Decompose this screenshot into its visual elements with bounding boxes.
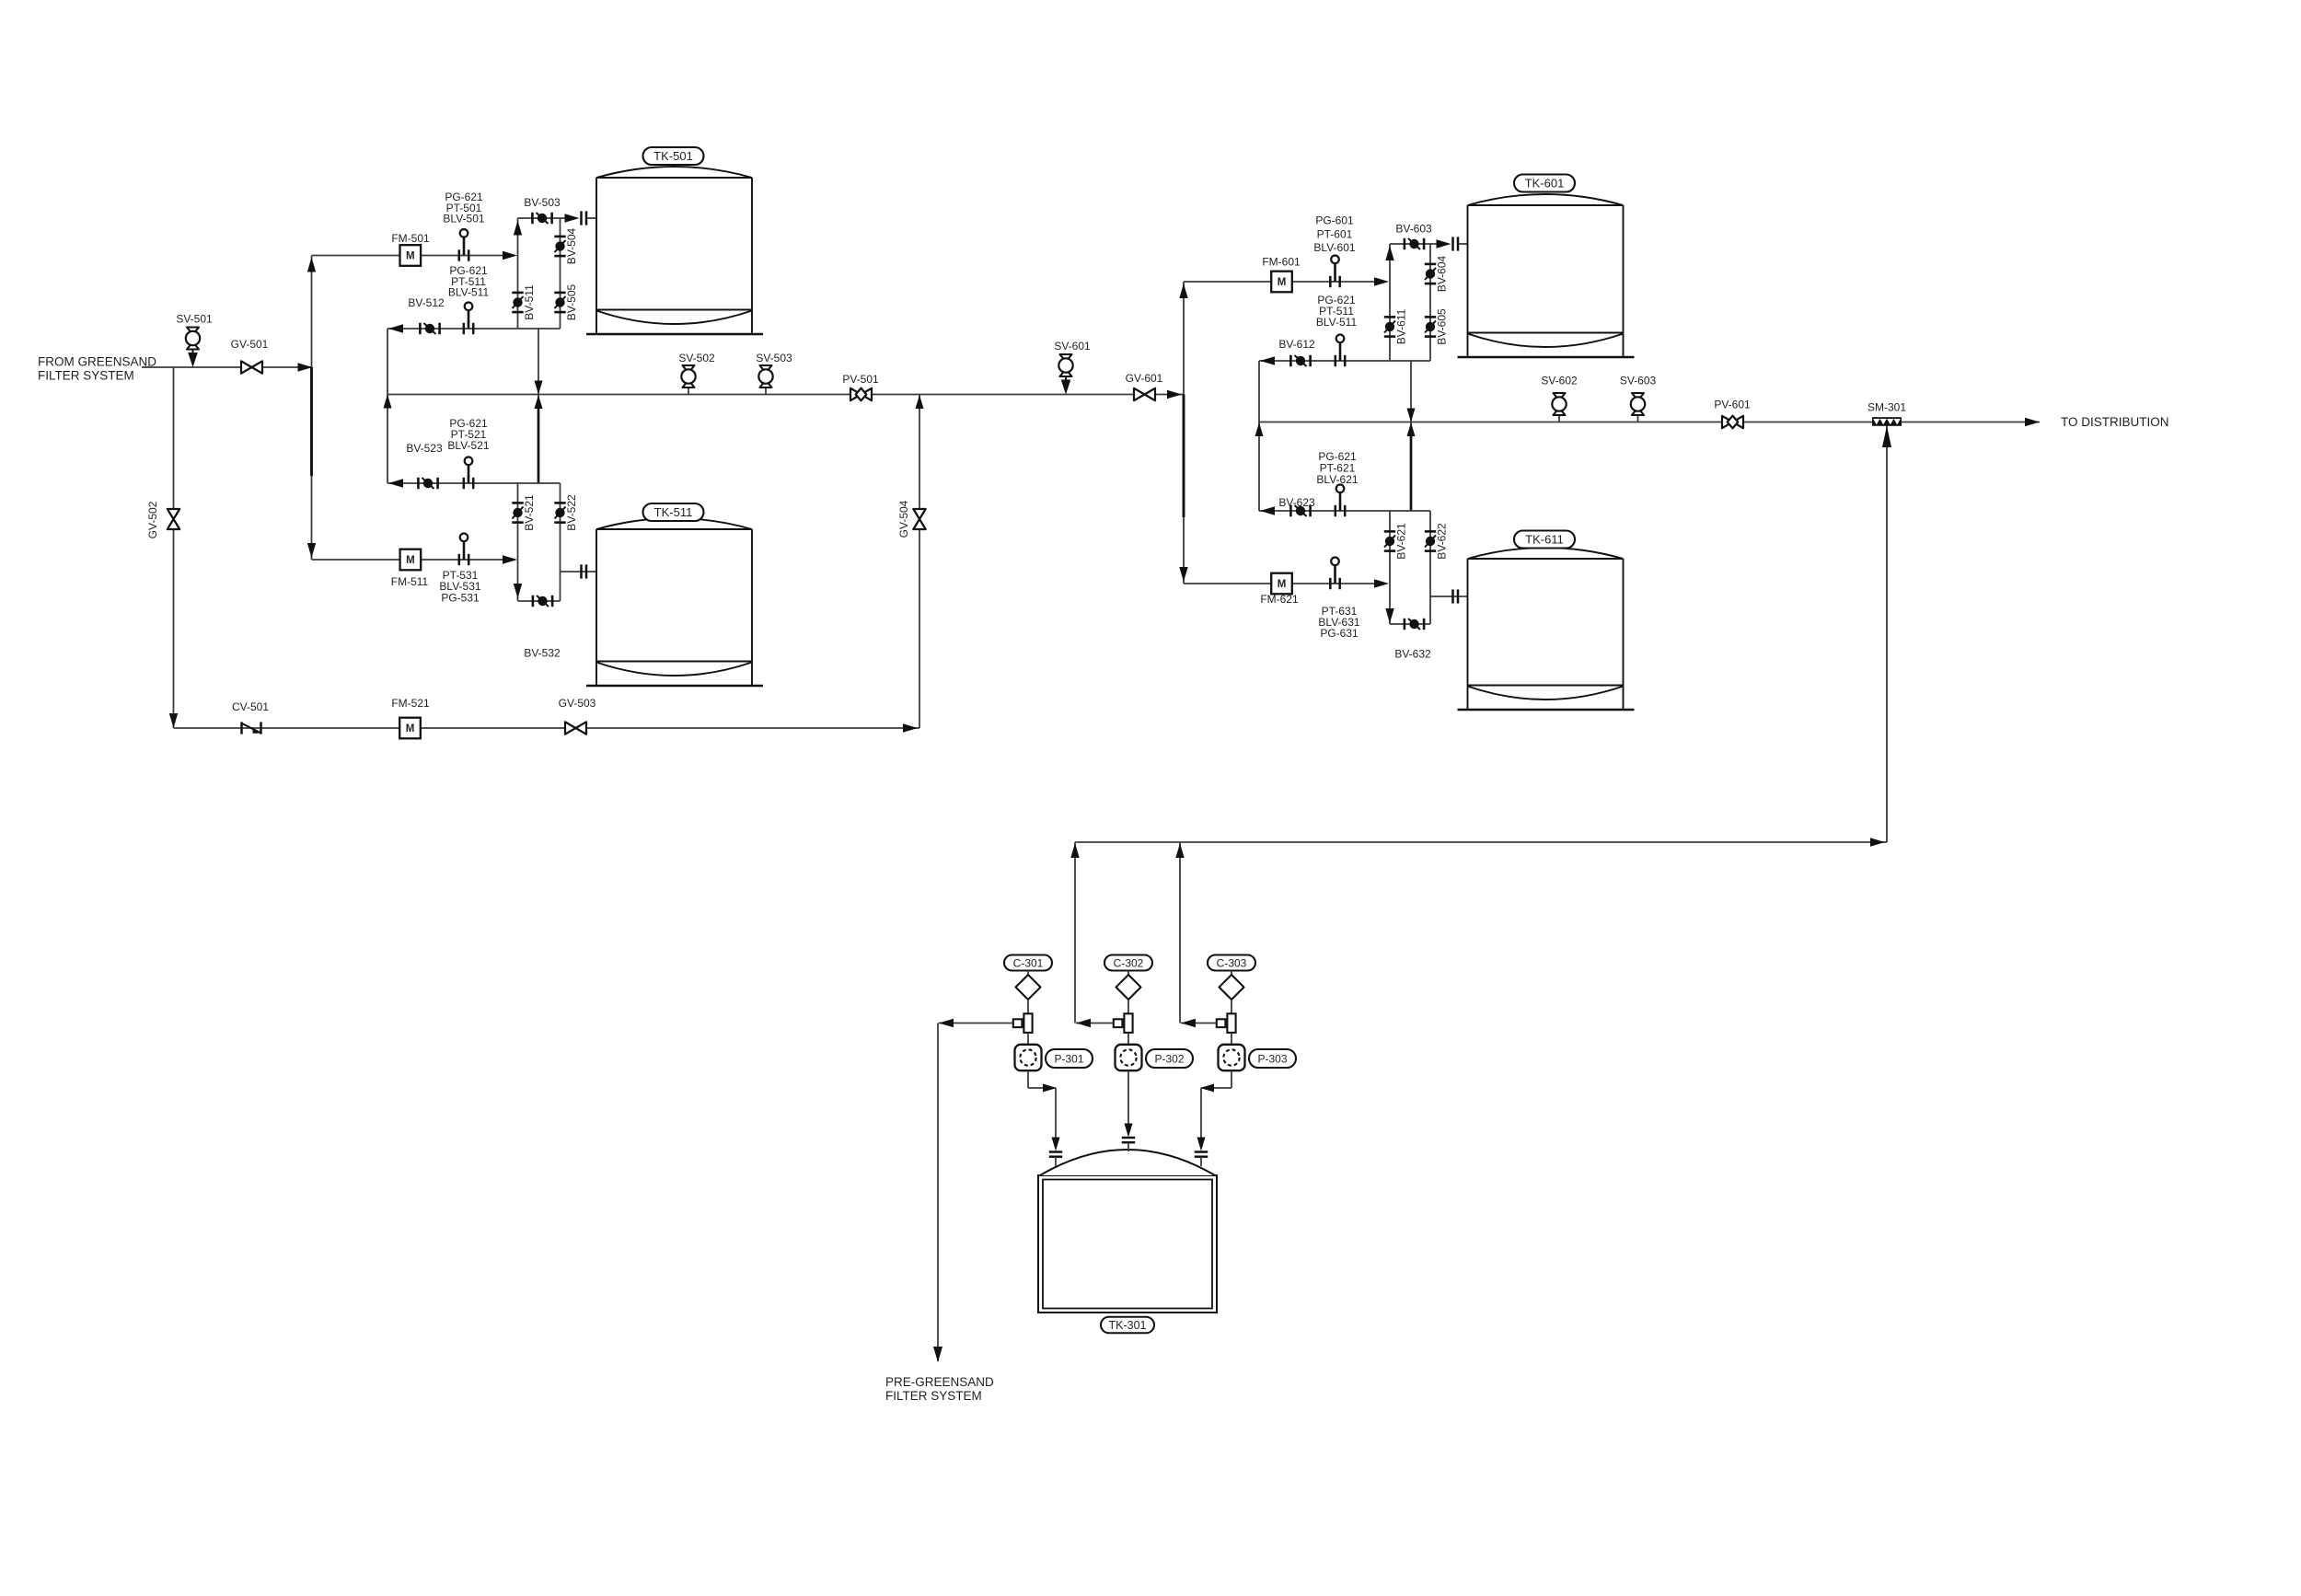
- instrument assembly PT-631: [1334, 565, 1336, 584]
- flow meter FM-601: [1271, 272, 1292, 293]
- pipe: outlet drop thick segment x=585: [538, 402, 540, 483]
- butterfly valve BV-611: [1384, 316, 1395, 318]
- butterfly valve BV-605: [1425, 316, 1436, 318]
- tank TK-511 label: [643, 503, 704, 521]
- pipe: manifold vertical x=608.5 lower (BV-522 leg): [560, 483, 561, 601]
- svg-text:BV-623: BV-623: [1278, 496, 1315, 509]
- svg-text:PRE-GREENSAND: PRE-GREENSAND: [885, 1375, 994, 1389]
- instrument assembly PT-501: [463, 237, 466, 256]
- gate valve GV-501: [241, 361, 252, 373]
- svg-text:GV-503: GV-503: [559, 697, 596, 710]
- svg-text:CV-501: CV-501: [232, 700, 269, 713]
- pipe: outlet drop vertical x=585: [538, 329, 539, 483]
- pipe: inlet header thick segment below junction: [310, 367, 313, 476]
- pipe: C-301 chemical drop to injector: [1027, 1000, 1029, 1013]
- pipe: pre-greensand feed vertical x=1019: [937, 1024, 939, 1362]
- pipe: P-303 discharge down: [1231, 1070, 1232, 1088]
- pipe: FM-621 service line y=634: [1184, 583, 1374, 584]
- butterfly valve BV-511: [512, 292, 523, 295]
- pipe: GV-504 riser x=999: [919, 395, 920, 729]
- gate valve GV-504: [913, 509, 925, 519]
- svg-text:FM-621: FM-621: [1260, 593, 1299, 606]
- pipe: FM-501 service line y=277.5: [312, 255, 503, 257]
- injection quill C-302: [1114, 1019, 1123, 1027]
- pipe: outlet drop thick segment x=1533: [1410, 430, 1413, 511]
- pipe: manifold vertical x=1554 lower (BV-622 leg): [1429, 511, 1431, 624]
- svg-text:BV-532: BV-532: [524, 647, 561, 660]
- pipe: carrier water drop x=1168 to C-302 injector: [1074, 842, 1076, 1024]
- butterfly valve BV-632: [1404, 619, 1406, 630]
- svg-text:M: M: [1278, 277, 1287, 288]
- node: down-arrow into right main line at (1533,458.5): [1407, 409, 1416, 422]
- node: left arrow at elbow (421,525): [388, 479, 403, 487]
- svg-text:PG-631: PG-631: [1320, 627, 1359, 640]
- flange at TK-601 inlet: [1451, 237, 1454, 250]
- pipe: manifold vertical x=1510 (BV-611 leg): [1389, 244, 1391, 361]
- svg-text:BV-605: BV-605: [1436, 308, 1449, 345]
- node: tall up-arrow below SM-301: [1882, 426, 1891, 448]
- node: backwash line down-arrow at x=188: [169, 713, 178, 728]
- pipe: C-302 injector line to x=1168: [1076, 1023, 1113, 1024]
- pipe: right header thick segment below junction: [1183, 395, 1185, 518]
- butterfly valve BV-505: [554, 292, 565, 295]
- pipe: chemical mixing header y=915: [1075, 841, 1887, 843]
- svg-text:SV-603: SV-603: [1620, 375, 1657, 387]
- flange at TK-301 left inlet: [1049, 1151, 1062, 1153]
- svg-text:FROM GREENSAND: FROM GREENSAND: [38, 355, 156, 369]
- control valve PV-501: [850, 388, 861, 400]
- flange at TK-611 inlet: [1451, 589, 1454, 603]
- node: arrow into manifold at (1510,306): [1374, 277, 1389, 285]
- flow meter FM-521: [399, 718, 421, 739]
- tank TK-501: [596, 167, 752, 178]
- svg-text:C-301: C-301: [1013, 956, 1044, 969]
- pipe: right inlet header vertical x=1286: [1183, 282, 1185, 584]
- svg-text:P-303: P-303: [1257, 1052, 1287, 1065]
- svg-text:TK-601: TK-601: [1525, 177, 1565, 191]
- pipe: BV-503 tank inlet line y=237: [518, 217, 566, 219]
- pipe: GV-502 branch vertical x=188: [173, 367, 175, 728]
- svg-text:SV-601: SV-601: [1054, 340, 1091, 353]
- sample valve SV-602: [1558, 415, 1560, 422]
- butterfly valve BV-504: [554, 236, 565, 238]
- svg-text:C-302: C-302: [1114, 956, 1144, 969]
- pipe: C-303 chemical drop to injector: [1231, 1000, 1232, 1013]
- svg-text:BV-632: BV-632: [1394, 648, 1431, 661]
- flange at TK-301 right inlet: [1195, 1151, 1208, 1153]
- node: header down-arrow to FM-511 line: [307, 543, 316, 558]
- pipe: FM-511 service line y=608: [312, 559, 503, 561]
- svg-text:TK-301: TK-301: [1109, 1319, 1147, 1332]
- metering pump P-303: [1219, 1045, 1245, 1070]
- svg-text:BLV-501: BLV-501: [443, 213, 484, 226]
- butterfly valve BV-512: [419, 323, 422, 334]
- pump label P-301: [1046, 1049, 1093, 1068]
- node: left arrow into x=1168 drop: [1076, 1019, 1091, 1027]
- svg-text:PV-501: PV-501: [842, 373, 879, 386]
- svg-text:P-302: P-302: [1154, 1052, 1184, 1065]
- butterfly valve BV-612: [1289, 355, 1292, 366]
- butterfly valve BV-622: [1425, 530, 1436, 533]
- svg-text:SV-602: SV-602: [1541, 375, 1578, 387]
- chemical feeder label C-301: [1004, 955, 1052, 971]
- instrument assembly PT-611: [1339, 342, 1342, 361]
- pipe: manifold vertical x=563 (BV-511 leg): [517, 218, 519, 329]
- node: down-arrow at (1510,678): [1385, 608, 1393, 623]
- svg-text:BV-611: BV-611: [1395, 308, 1408, 344]
- pump label P-303: [1249, 1049, 1296, 1068]
- gate valve GV-502: [168, 509, 179, 519]
- node: header up-arrow to FM-501 line: [307, 258, 316, 272]
- pipe: inlet header vertical x=338: [311, 256, 313, 561]
- svg-text:BLV-601: BLV-601: [1313, 241, 1355, 254]
- pipe: BV-603 tank inlet line y=265: [1390, 243, 1437, 245]
- svg-text:BV-504: BV-504: [565, 227, 578, 264]
- svg-text:FILTER SYSTEM: FILTER SYSTEM: [38, 369, 134, 383]
- sample valve SV-502: [688, 387, 689, 395]
- sample valve SV-501: [192, 350, 194, 355]
- svg-text:BLV-521: BLV-521: [447, 439, 489, 452]
- node: up-arrow into main line at (421,428): [384, 395, 392, 409]
- pipe: lower outlet line B y=525: [387, 482, 561, 484]
- gate valve GV-503: [565, 722, 576, 734]
- tank TK-601: [1468, 194, 1624, 205]
- node: up-arrow at top of x=563 leg: [514, 221, 522, 236]
- svg-text:FM-521: FM-521: [391, 697, 430, 710]
- node: left arrow at elbow (1368,555): [1260, 506, 1275, 515]
- svg-text:BV-523: BV-523: [406, 442, 443, 455]
- svg-text:M: M: [1278, 579, 1287, 590]
- svg-text:FILTER SYSTEM: FILTER SYSTEM: [885, 1389, 982, 1403]
- svg-text:PT-601: PT-601: [1317, 228, 1353, 241]
- svg-text:FM-511: FM-511: [391, 575, 429, 588]
- svg-text:BV-621: BV-621: [1395, 523, 1408, 560]
- sample valve SV-601: [1065, 376, 1067, 382]
- svg-text:SV-503: SV-503: [756, 352, 792, 364]
- butterfly valve BV-623: [1289, 505, 1292, 516]
- pipe: vertical x=421 from line A to line B: [387, 329, 388, 483]
- svg-text:BV-612: BV-612: [1278, 338, 1315, 351]
- svg-text:M: M: [406, 251, 415, 262]
- svg-text:TK-511: TK-511: [654, 505, 693, 519]
- node: down-arrow into main line at (585,428): [535, 381, 543, 395]
- tank TK-511: [596, 518, 752, 529]
- node: down-arrow above TK-301 right flange: [1197, 1138, 1206, 1151]
- svg-text:PV-601: PV-601: [1714, 399, 1751, 411]
- static mixer SM-301: [1872, 417, 1902, 426]
- svg-text:GV-501: GV-501: [231, 338, 269, 351]
- flow meter FM-501: [400, 245, 422, 266]
- svg-text:BLV-511: BLV-511: [448, 286, 490, 299]
- flow meter FM-511: [400, 549, 422, 571]
- svg-text:SV-502: SV-502: [678, 352, 715, 364]
- tank TK-611: [1468, 548, 1624, 559]
- instrument assembly PT-601: [1334, 263, 1336, 282]
- node: left arrow at elbow (421,357): [388, 324, 403, 332]
- svg-text:TK-611: TK-611: [1525, 533, 1564, 547]
- svg-text:SV-501: SV-501: [176, 313, 213, 326]
- pipe: outlet drop vertical x=1533: [1410, 361, 1412, 511]
- node: down-arrow above TK-301 left flange: [1052, 1138, 1060, 1151]
- pipe: P-303 drop into TK-301: [1200, 1088, 1202, 1138]
- instrument assembly PT-511: [468, 310, 470, 329]
- injection quill C-303: [1217, 1019, 1226, 1027]
- sample valve SV-503: [765, 387, 767, 395]
- svg-text:GV-502: GV-502: [146, 501, 159, 538]
- pump label P-302: [1146, 1049, 1193, 1068]
- svg-text:P-301: P-301: [1054, 1052, 1083, 1065]
- node: left arrow at elbow (1368,392): [1260, 356, 1275, 364]
- metering pump P-301: [1015, 1045, 1042, 1070]
- butterfly valve BV-521: [512, 502, 523, 504]
- chemical feeder label C-303: [1208, 955, 1255, 971]
- node: up-arrow at top of x=1510 leg: [1385, 246, 1393, 260]
- check valve CV-501: [240, 722, 243, 734]
- tank TK-501 label: [643, 147, 704, 165]
- node: up-arrow at top of x=1282: [1175, 843, 1184, 858]
- pipe: C-303 injector line to x=1282: [1181, 1023, 1216, 1024]
- tank TK-301 label: [1101, 1317, 1154, 1334]
- svg-text:GV-504: GV-504: [897, 500, 910, 538]
- instrument assembly PT-621: [1339, 492, 1342, 511]
- chemical feeder diamond C-302: [1127, 971, 1129, 976]
- node: header up-arrow to FM-601 line: [1179, 283, 1187, 298]
- svg-text:BV-521: BV-521: [523, 494, 536, 531]
- chemical feeder diamond C-301: [1027, 971, 1029, 976]
- svg-text:BLV-621: BLV-621: [1316, 473, 1358, 486]
- svg-text:BV-622: BV-622: [1436, 523, 1449, 560]
- pipe: C-302 chemical drop to injector: [1127, 1000, 1129, 1013]
- tank TK-601 label: [1514, 175, 1575, 192]
- injection quill C-301: [1013, 1019, 1023, 1027]
- pipe: vertical x=1368 from line C to line D: [1258, 361, 1260, 511]
- svg-text:PG-531: PG-531: [441, 592, 480, 605]
- svg-text:C-303: C-303: [1217, 956, 1247, 969]
- pipe: P-302 discharge down into TK-301: [1127, 1070, 1129, 1124]
- svg-text:BV-603: BV-603: [1395, 223, 1432, 236]
- instrument assembly PT-531: [463, 541, 466, 560]
- pipe: inlet from greensand filter system y=399: [142, 366, 312, 368]
- svg-text:FM-501: FM-501: [391, 232, 430, 245]
- chemical feeder diamond C-303: [1231, 971, 1232, 976]
- node: up-arrow into right main line at (1368,458.5): [1255, 422, 1264, 436]
- node: arrow at (1305,1182): [1200, 1084, 1214, 1093]
- pipe: manifold vertical x=563 lower (BV-521 leg): [517, 483, 519, 601]
- pipe: P-301 drop into TK-301: [1055, 1088, 1057, 1138]
- pipe: lower outlet line D y=555: [1259, 510, 1430, 512]
- node: left arrow into x=1282 drop: [1181, 1019, 1196, 1027]
- pipe: manifold vertical x=608.5 (BV-504/505 leg): [560, 218, 561, 329]
- butterfly valve BV-603: [1404, 238, 1406, 249]
- butterfly valve BV-503: [531, 213, 534, 224]
- flange at TK-511 inlet: [580, 564, 583, 578]
- tank TK-301: [1038, 1175, 1217, 1313]
- chemical feeder label C-302: [1104, 955, 1152, 971]
- pipe: quill to pump P-301: [1027, 1033, 1029, 1045]
- pipe: upper outlet line A y=357: [387, 328, 561, 330]
- node: arrow to distribution: [2025, 418, 2040, 426]
- node: down-arrow at (563,653): [514, 584, 522, 598]
- node: up-arrow into main line from below at (585,428): [535, 395, 543, 409]
- pipe: manifold vertical x=1554 (BV-604/605 leg): [1429, 244, 1431, 361]
- svg-text:GV-601: GV-601: [1126, 372, 1163, 385]
- node: left arrow into x=1019 drop: [939, 1019, 954, 1027]
- pipe: main treated-water line y=428.5: [387, 394, 1183, 396]
- pipe: upper outlet line C y=392: [1259, 360, 1430, 362]
- pipe: TK-611 inlet line y=648: [1430, 596, 1468, 597]
- node: arrow into manifold at (563,608): [503, 555, 517, 563]
- node: down-arrow to pre-greensand filter system: [933, 1347, 942, 1362]
- flange at TK-501 inlet: [580, 211, 583, 225]
- svg-text:M: M: [406, 723, 415, 734]
- node: inlet junction arrow at header x=338: [298, 363, 313, 371]
- tank TK-611 label: [1514, 531, 1575, 549]
- pipe: C-301 injector to pre-greensand line: [939, 1023, 1012, 1024]
- svg-text:PG-601: PG-601: [1315, 214, 1354, 227]
- node: down-arrow above TK-301 centre flange: [1125, 1124, 1133, 1138]
- node: up-arrow at top of x=1168: [1070, 843, 1079, 858]
- svg-text:BV-503: BV-503: [524, 196, 561, 209]
- node: arrow into manifold at (1510,634): [1374, 579, 1389, 587]
- svg-text:SM-301: SM-301: [1867, 401, 1906, 414]
- metering pump P-302: [1116, 1045, 1142, 1070]
- svg-text:BV-505: BV-505: [565, 283, 578, 320]
- sample valve SV-603: [1637, 415, 1639, 422]
- pipe: right main line to distribution y=458.5: [1259, 422, 2040, 423]
- svg-text:M: M: [406, 555, 415, 566]
- svg-text:BV-604: BV-604: [1436, 255, 1449, 292]
- gate valve GV-601: [1134, 388, 1145, 400]
- node: backwash line right-arrow into GV-504 riser: [903, 723, 918, 732]
- node: arrow into right header at (1286,428): [1167, 390, 1182, 399]
- pipe: quill to pump P-302: [1127, 1033, 1129, 1045]
- pipe: backwash bottom line y=791: [174, 727, 920, 729]
- svg-text:TK-501: TK-501: [653, 149, 693, 163]
- node: arrow at (1147,1182): [1043, 1084, 1057, 1093]
- svg-text:TO DISTRIBUTION: TO DISTRIBUTION: [2061, 415, 2169, 429]
- node: header down-arrow to FM-621 line: [1179, 567, 1187, 582]
- pipe: BV-532 cross line y=653: [518, 600, 561, 602]
- node: up-arrow into right main line from below at (1533,458.5): [1407, 422, 1416, 436]
- pipe: BV-632 cross line y=678: [1390, 623, 1430, 625]
- control valve PV-601: [1722, 416, 1733, 428]
- butterfly valve BV-523: [417, 478, 420, 489]
- node: arrow into manifold at (563,277.5): [503, 251, 517, 260]
- pipe: FM-601 service line y=306: [1184, 281, 1374, 283]
- svg-text:BV-511: BV-511: [523, 284, 536, 320]
- pipe: quill to pump P-303: [1231, 1033, 1232, 1045]
- butterfly valve BV-522: [554, 502, 565, 504]
- svg-text:BV-522: BV-522: [565, 494, 578, 531]
- pipe: P-301 discharge down: [1027, 1070, 1029, 1088]
- flange at TK-301 centre inlet: [1122, 1137, 1135, 1139]
- svg-text:FM-601: FM-601: [1262, 256, 1301, 269]
- node: arrow into TK-601 inlet flange: [1437, 239, 1451, 248]
- butterfly valve BV-604: [1425, 263, 1436, 266]
- pipe: manifold vertical x=1510 lower (BV-621 leg): [1389, 511, 1391, 624]
- node: arrow into TK-501 inlet flange: [565, 214, 580, 222]
- butterfly valve BV-532: [532, 596, 535, 607]
- instrument assembly PT-521: [468, 465, 470, 483]
- pipe: TK-511 inlet line y=621: [561, 571, 597, 572]
- node: up-arrow into main line at (999,428): [916, 395, 924, 409]
- pipe: carrier water drop x=1282 to C-303 injector: [1179, 842, 1181, 1024]
- svg-text:BV-512: BV-512: [408, 296, 445, 309]
- pipe: P-301 discharge right to TK-301: [1028, 1087, 1056, 1089]
- flow meter FM-621: [1271, 573, 1292, 595]
- svg-text:BLV-511: BLV-511: [1316, 316, 1358, 329]
- pipe: P-303 discharge left to TK-301: [1201, 1087, 1231, 1089]
- pipe: SM-301 feed riser x=2050: [1886, 425, 1888, 842]
- butterfly valve BV-621: [1384, 530, 1395, 533]
- node: right-arrow into riser at (2050,915): [1870, 838, 1885, 846]
